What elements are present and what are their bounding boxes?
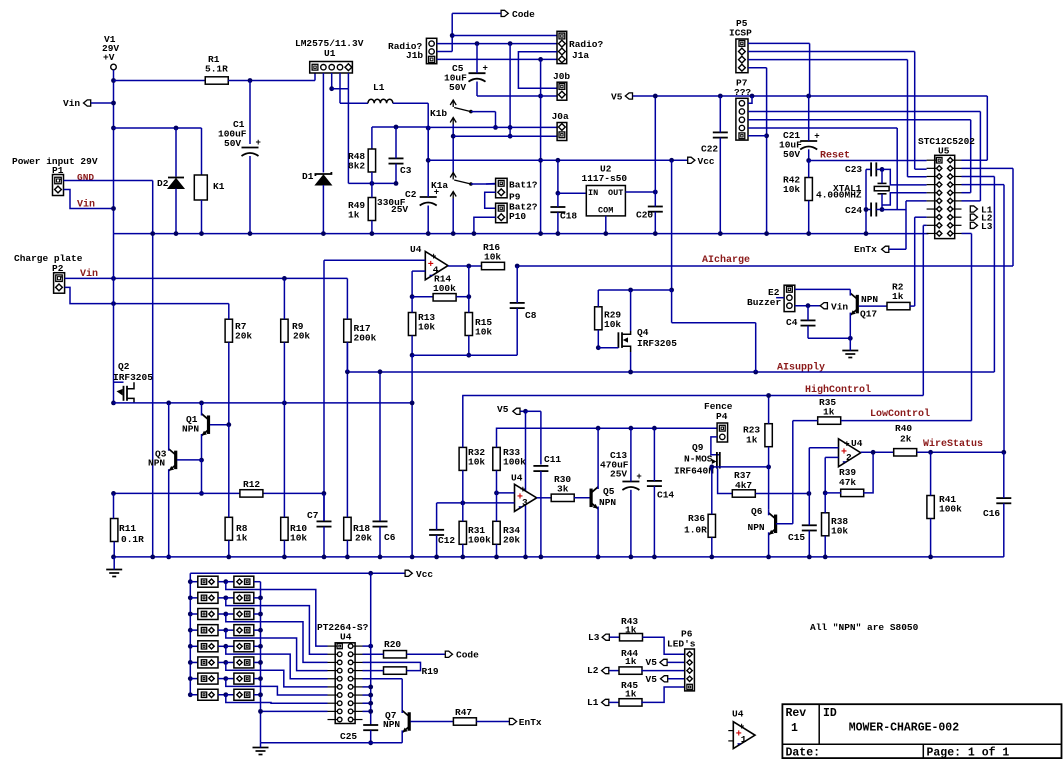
node R12 right	[322, 491, 327, 496]
wire down to U2 IN	[557, 160, 559, 193]
svg-text:IN: IN	[588, 188, 598, 198]
svg-text:U4: U4	[340, 632, 352, 643]
wire U1 pin2 down through D1 to rail	[322, 73, 324, 173]
svg-text:C22: C22	[701, 144, 718, 155]
jumper row 7 left block	[188, 676, 193, 681]
wire +V down to rail	[113, 70, 115, 234]
bottom node row opamp4	[410, 353, 415, 358]
wire opamp2 output	[861, 451, 894, 453]
svg-text:50V: 50V	[783, 149, 800, 160]
wire J1b pin3 to J1a pin4	[437, 58, 557, 60]
wire Vcc branch node	[669, 288, 674, 293]
node Vin	[111, 101, 116, 106]
node L1/C2/K1b	[426, 126, 431, 131]
svg-text:Page: 1 of 1: Page: 1 of 1	[927, 747, 1010, 760]
transistor Q1	[207, 415, 210, 434]
wire C2 top	[427, 128, 429, 197]
wire rows 6-9 to Vcc vertical	[363, 686, 371, 688]
Q3 emitter wire	[168, 469, 170, 557]
jumper row 3 right block	[226, 613, 234, 615]
svg-text:Vcc: Vcc	[698, 156, 715, 167]
vertical bus from J1a pin4 down to rail	[540, 59, 542, 233]
svg-text:Q4: Q4	[637, 327, 649, 338]
jumper row 8 right block	[226, 694, 234, 696]
svg-text:C7: C7	[307, 510, 319, 521]
wire P7 pin4 down to crystal node	[748, 127, 897, 129]
svg-text:R40: R40	[895, 423, 912, 434]
U4 pin row 8	[337, 701, 342, 706]
wire E2 pin3 node	[795, 305, 820, 307]
svg-text:C8: C8	[525, 310, 537, 321]
wire left main vertical continues	[113, 234, 115, 403]
wire R48 top node	[372, 126, 428, 128]
net arrow Vcc	[688, 157, 695, 163]
svg-text:ID: ID	[823, 707, 837, 720]
wire R23 top to HighControl	[768, 396, 770, 424]
capacitor C2 symbol	[420, 196, 437, 198]
svg-text:AIcharge: AIcharge	[702, 254, 750, 266]
wire P7 pin5 to vertical bus	[748, 135, 767, 137]
wire OUT node up to V5 line	[654, 96, 656, 192]
U4 pin row 7	[337, 693, 342, 698]
svg-text:1.0R: 1.0R	[684, 525, 707, 536]
wire Code to J1a pin1	[452, 12, 501, 14]
svg-text:100k: 100k	[503, 457, 526, 468]
jumper row 7 right block	[226, 678, 234, 680]
wire U1 pin3 down	[331, 73, 333, 89]
svg-text:Charge plate: Charge plate	[14, 253, 83, 264]
svg-text:C24: C24	[845, 205, 862, 216]
svg-text:HighControl: HighControl	[805, 384, 871, 396]
U4 pin row 4	[337, 668, 342, 673]
jumper row 6 left block	[188, 660, 193, 665]
wire opamp4 +input	[324, 259, 425, 261]
wire C2 bottom	[427, 206, 429, 234]
wire C24 right to node B	[876, 209, 882, 211]
jumper row 4 wire to U4 pin 4	[226, 630, 328, 670]
wire R35 left down to Q6 base	[793, 420, 818, 422]
wire C11 vertical	[540, 411, 542, 464]
wire opamp3 +input	[497, 492, 515, 494]
svg-text:NPN: NPN	[383, 719, 400, 730]
svg-text:R47: R47	[455, 707, 472, 718]
wire R1 to U1 pin1	[228, 80, 250, 82]
Q1 collector wire	[201, 403, 203, 416]
svg-text:C2: C2	[405, 189, 417, 200]
Q5 collector wire up to C13 line	[597, 428, 599, 489]
wire U5 row1 right to V5	[962, 159, 988, 161]
node U1 pin3/pin5	[329, 86, 334, 91]
wire to D2/K1	[114, 127, 202, 129]
svg-text:1117-s50: 1117-s50	[582, 173, 628, 184]
jumper row 5 wire to U4 pin 5	[226, 646, 328, 678]
node Q2 source	[111, 401, 116, 406]
svg-text:+: +	[814, 132, 819, 142]
wire D1 bottom	[322, 185, 324, 234]
vertical from J1b pin1 net down	[509, 44, 511, 137]
svg-text:1k: 1k	[236, 533, 248, 544]
jumper row 6 wire to U4 pin 6	[226, 662, 328, 686]
jumper row 4 right block	[226, 629, 234, 631]
transistor Q9 symbol	[716, 452, 718, 469]
wire D2 top	[175, 128, 177, 177]
node Vcc branch down	[669, 158, 674, 163]
U4 pin row 6	[337, 685, 342, 690]
svg-text:L3: L3	[981, 221, 993, 232]
svg-text:V5: V5	[646, 657, 658, 668]
wire opamp2 -input	[825, 456, 838, 458]
net arrow Code bottom	[407, 653, 445, 655]
wire U2 OUT to C20 node	[625, 191, 655, 193]
svg-text:MOWER-CHARGE-002: MOWER-CHARGE-002	[849, 722, 960, 735]
svg-text:K1b: K1b	[430, 108, 447, 119]
wire U5 row4 right to WireStatus	[962, 184, 1005, 186]
title block dividers	[782, 743, 1061, 745]
Q9 source wire	[712, 466, 720, 468]
jumper row 8 left block	[188, 692, 193, 697]
wire R33 top corner	[497, 428, 518, 447]
Q5 emitter wire down	[597, 507, 599, 557]
LowControl wire	[841, 420, 972, 422]
wire R2 right up to U5 row8	[910, 305, 915, 307]
U4 pin row 3	[337, 660, 342, 665]
wire crystal left bus	[866, 168, 871, 170]
wire EnTx up to U5 row6	[889, 248, 906, 250]
R14 feedback row	[410, 294, 415, 299]
node D2/K1 branch	[111, 126, 116, 131]
svg-text:C25: C25	[340, 731, 357, 742]
svg-text:L1: L1	[587, 697, 599, 708]
wire K1a pivot to P9	[471, 183, 496, 185]
svg-text:Q2: Q2	[118, 361, 130, 372]
wire U5 row8 left to R2	[915, 216, 927, 218]
jumper row 5 right block	[226, 645, 234, 647]
Q1 base wire to R7	[210, 424, 229, 426]
wire L1 to C2 node	[393, 102, 428, 104]
node R16 right / C8	[515, 264, 520, 269]
jumper row 2 wire to U4 pin 2	[226, 598, 328, 654]
wire C3 leads	[395, 127, 397, 158]
wire IN line	[558, 192, 586, 194]
wire P7 pin1 up to V5	[748, 96, 752, 103]
svg-text:WireStatus: WireStatus	[923, 438, 983, 450]
wire V5 to P6 pin2	[667, 661, 684, 663]
svg-text:3k: 3k	[557, 484, 569, 495]
svg-text:25V: 25V	[391, 204, 408, 215]
wire R33 bottom	[496, 470, 498, 493]
wire U2 COM to rail	[605, 216, 607, 234]
transistor Q2 symbol	[114, 381, 124, 383]
svg-text:47k: 47k	[839, 477, 856, 488]
jumper row 3 left block	[188, 612, 193, 617]
transistor Q17	[856, 295, 859, 314]
capacitor C4 symbol	[801, 319, 816, 321]
svg-text:IRF640N: IRF640N	[674, 466, 714, 477]
svg-text:1k: 1k	[823, 407, 835, 418]
wire P9 pin2 to P10 pin1	[485, 192, 496, 208]
wire U5 row2 right to AIcharge	[962, 167, 1014, 169]
wire J1a pin3 to J0b pin1	[518, 52, 557, 89]
wire R37 right to opamp2 node	[756, 493, 809, 495]
svg-text:+: +	[483, 64, 488, 74]
R12 line	[114, 492, 324, 494]
wire R45 to P6 pin5	[641, 687, 684, 702]
svg-text:Radio?: Radio?	[569, 39, 604, 50]
svg-text:OUT: OUT	[608, 188, 623, 198]
Q6 emitter wire	[768, 532, 770, 557]
net arrows L1 L2 L3	[970, 206, 977, 212]
svg-text:Q17: Q17	[860, 309, 877, 320]
svg-text:LowControl: LowControl	[870, 408, 930, 420]
net arrow Vin buzzer	[820, 303, 827, 309]
svg-text:4.000MHZ: 4.000MHZ	[816, 190, 862, 201]
svg-text:0.1R: 0.1R	[121, 534, 144, 545]
wire J1b pin1 to J1a pin2	[437, 43, 557, 45]
switch K1b lower contact	[450, 118, 456, 123]
svg-text:50V: 50V	[449, 82, 466, 93]
svg-text:Code: Code	[456, 650, 479, 661]
wire U5 row9 left to HighControl	[923, 224, 926, 226]
wire P1 GND to right	[64, 180, 153, 182]
wire U4 row5 to Q7 collector	[363, 678, 403, 680]
U5 pins	[936, 157, 942, 163]
svg-text:1k: 1k	[892, 291, 904, 302]
svg-text:C15: C15	[788, 532, 805, 543]
wire R23 bottom	[768, 447, 770, 467]
node V5 mid	[523, 409, 528, 414]
jumper row 3 wire to U4 pin 3	[226, 614, 328, 662]
svg-text:R36: R36	[688, 513, 705, 524]
svg-text:50V: 50V	[224, 138, 241, 149]
wire P10 pin2 to rail	[474, 217, 496, 233]
svg-text:K1: K1	[213, 181, 225, 192]
wire R32 bottom	[462, 470, 464, 503]
svg-text:+V: +V	[103, 52, 115, 63]
wire node A to U5 row4	[882, 169, 927, 185]
AIsupply wire	[347, 371, 994, 373]
+V terminal circle	[111, 64, 117, 70]
svg-text:K1a: K1a	[431, 180, 448, 191]
IC U4 body	[335, 643, 355, 724]
svg-text:1k: 1k	[625, 689, 637, 700]
node GND vertical at bottom rail	[150, 555, 155, 560]
node K1b	[493, 125, 498, 130]
Q4 gate wire from R29 bottom	[597, 330, 599, 348]
Q6 base wire	[776, 523, 793, 525]
wire pin3 to pin5	[332, 88, 349, 90]
svg-text:EnTx: EnTx	[854, 244, 877, 255]
wire P2 pin1 Vin line	[65, 277, 348, 279]
svg-text:NPN: NPN	[748, 522, 765, 533]
svg-text:D1: D1	[302, 171, 314, 182]
svg-text:10k: 10k	[604, 319, 621, 330]
bottom rail	[114, 556, 1004, 558]
wire opamp4 output	[448, 265, 482, 267]
wire R44 to P6 pin3	[641, 670, 684, 672]
svg-text:5.1R: 5.1R	[205, 64, 228, 75]
resistor R19	[384, 667, 407, 674]
svg-text:R11: R11	[119, 523, 136, 534]
svg-text:???: ???	[734, 87, 751, 98]
wire Vcc line from C2 node to Vcc arrow	[427, 128, 429, 160]
Q17 collector stub	[849, 289, 851, 295]
wire R30 to Q5 base	[574, 497, 590, 499]
U4 pin row 2	[337, 652, 342, 657]
jumper row 8 wire to U4 pin 8	[226, 695, 328, 703]
wire gnd bus to U4 left row9	[261, 710, 328, 712]
svg-text:L1: L1	[373, 82, 385, 93]
svg-text:10k: 10k	[783, 184, 800, 195]
svg-text:L2: L2	[587, 665, 599, 676]
svg-text:N-MOS: N-MOS	[684, 454, 713, 465]
wire U4 right row1 to Vcc vertical	[363, 645, 371, 647]
IC U5 body	[935, 155, 955, 238]
net arrow Code top	[501, 10, 508, 16]
wire P2 pin2 line	[65, 287, 229, 303]
svg-text:V5: V5	[646, 674, 658, 685]
wire U1 pin4 down to L1	[339, 73, 341, 103]
svg-text:Bat1?: Bat1?	[509, 180, 538, 191]
svg-text:Q5: Q5	[603, 486, 615, 497]
wire R9 bottom	[283, 342, 285, 403]
jumper row 1 right block	[226, 581, 234, 583]
wire AIcharge-Vcc vertical lower part	[671, 290, 673, 323]
svg-text:1k: 1k	[348, 210, 360, 221]
svg-text:EnTx: EnTx	[519, 717, 542, 728]
svg-text:NPN: NPN	[861, 294, 878, 305]
svg-text:10k: 10k	[418, 322, 435, 333]
svg-text:20k: 20k	[293, 331, 310, 342]
wire K1b lower contact down to K1a	[452, 125, 454, 173]
wire R47 to EnTx	[476, 721, 509, 723]
svg-text:20k: 20k	[503, 535, 520, 546]
svg-text:J1b: J1b	[406, 50, 423, 61]
svg-text:NPN: NPN	[182, 424, 199, 435]
transistor Q7	[408, 712, 411, 731]
gnd bus bottom	[261, 742, 403, 744]
wire Vcc branch down to AIcharge region	[671, 160, 673, 290]
svg-text:10k: 10k	[468, 457, 485, 468]
node Vcc/C18	[556, 158, 561, 163]
svg-text:IRF3205: IRF3205	[113, 372, 153, 383]
svg-text:Vcc: Vcc	[416, 569, 433, 580]
wire GND down to bottom rail	[152, 181, 154, 557]
svg-text:V5: V5	[497, 404, 509, 415]
wire E2 pin2 stub	[776, 297, 784, 299]
node P1 Vin	[111, 206, 116, 211]
jumper row 5 left block	[188, 644, 193, 649]
svg-text:C16: C16	[983, 508, 1000, 519]
Q6 collector stub	[768, 510, 770, 516]
wire K1 bottom to rail	[201, 200, 203, 234]
Q17 emitter stub	[849, 313, 851, 339]
svg-text:R19: R19	[422, 666, 439, 677]
svg-text:20k: 20k	[235, 331, 252, 342]
svg-text:Q6: Q6	[751, 506, 763, 517]
svg-text:U1: U1	[324, 48, 336, 59]
wire V1 to R1	[114, 80, 206, 82]
transistor Q4 symbol	[617, 332, 619, 348]
svg-text:100k: 100k	[468, 535, 491, 546]
svg-text:GND: GND	[77, 172, 94, 183]
wire R48 bottom node row	[348, 182, 396, 184]
wire crystal verticals	[881, 169, 883, 183]
svg-text:1: 1	[791, 722, 798, 735]
AIcharge wire	[517, 265, 1013, 267]
wire V5 node right to C11	[526, 410, 541, 412]
wire R49 bottom	[371, 221, 373, 234]
ground symbol at jumpers	[253, 747, 269, 749]
wire node B to U5 row5	[882, 193, 927, 205]
wire U5 row3 right to AIsupply	[962, 175, 995, 177]
svg-text:C14: C14	[657, 490, 674, 501]
svg-text:Q9: Q9	[692, 442, 704, 453]
svg-text:NPN: NPN	[148, 458, 165, 469]
wire P7 pin2 to U5 row6	[748, 111, 980, 113]
wire R17 bottom to AIsupply	[346, 342, 348, 372]
wire node B horizontal	[882, 209, 906, 211]
wire P5 pin1 right and down to V5/C21	[748, 42, 810, 44]
svg-text:U4: U4	[410, 244, 422, 255]
rail junction dots	[174, 231, 179, 236]
wire P4 pin2 to Q9 drain	[711, 437, 720, 455]
svg-text:100k: 100k	[939, 504, 962, 515]
svg-text:D2: D2	[157, 178, 169, 189]
svg-text:L3: L3	[588, 632, 600, 643]
V5 line	[633, 95, 988, 97]
wire J0a pin1 line	[428, 126, 557, 128]
wire pin4 to L1	[340, 102, 368, 104]
svg-text:-: -	[517, 501, 524, 513]
svg-text:Date:: Date:	[786, 747, 821, 760]
wire P5 pin2 to U5 row2	[748, 51, 915, 53]
Q7 collector stub	[401, 711, 403, 713]
svg-text:10k: 10k	[831, 526, 848, 537]
Q9 gate wire from R37	[718, 469, 733, 494]
wire K1 top	[201, 128, 203, 175]
node Reset	[806, 158, 811, 163]
wire P1 pin2 to +V rail	[64, 190, 114, 209]
wire opamp4 -input	[412, 270, 425, 272]
U4 pin row 9	[337, 709, 342, 714]
svg-text:C12: C12	[438, 535, 455, 546]
wire R29 top row	[598, 289, 671, 291]
wire C4 bottom to Q17 emitter	[808, 337, 850, 339]
node K1b lower to J0a pin2	[508, 134, 513, 139]
svg-text:100k: 100k	[433, 283, 456, 294]
wire Reset to U5 row1	[809, 160, 927, 162]
U4 pin row 5	[337, 676, 342, 681]
transistor Q5	[589, 489, 592, 508]
wire opamp3 output to R30	[537, 497, 552, 499]
WireStatus wire	[917, 451, 1004, 453]
svg-text:C23: C23	[845, 164, 862, 175]
svg-text:C4: C4	[786, 317, 798, 328]
svg-text:J1a: J1a	[572, 50, 589, 61]
svg-text:+: +	[636, 472, 641, 482]
svg-text:U4: U4	[511, 473, 523, 484]
transistor Q3	[174, 451, 177, 470]
wire opamp2 +input	[809, 447, 838, 449]
ground symbol bottom left	[106, 569, 122, 571]
svg-text:P4: P4	[716, 411, 728, 422]
jumper row 4 left block	[188, 628, 193, 633]
Q3 base wire	[177, 459, 202, 461]
wire K1b pivot to right	[471, 111, 496, 113]
wire R48 top lead	[371, 127, 373, 149]
svg-text:ICSP: ICSP	[729, 28, 752, 39]
C13/C14/P4 line	[497, 427, 718, 429]
